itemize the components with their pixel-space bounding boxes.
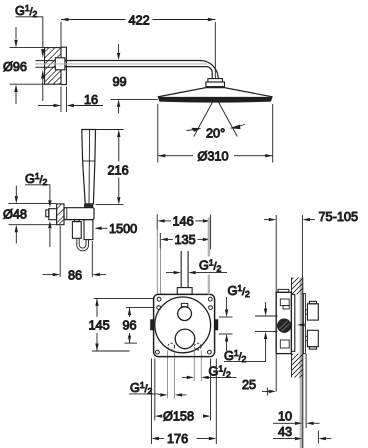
svg-text:135: 135 <box>175 233 196 247</box>
label G1/2 bottom-right port <box>182 351 237 382</box>
hose connector at holder outlet <box>72 220 81 239</box>
side view: valve body (dark) <box>277 319 291 333</box>
side view: wall flange plate <box>291 295 294 352</box>
svg-text:Ø158: Ø158 <box>163 410 194 424</box>
lower handle side view <box>305 330 318 349</box>
label G1/2 right side port <box>219 283 250 351</box>
dimension 99 <box>111 44 158 114</box>
svg-text:216: 216 <box>108 164 129 178</box>
label G1/2 hand shower wall union <box>25 171 52 247</box>
svg-text:16: 16 <box>84 93 98 107</box>
side view: box top step <box>278 289 289 292</box>
dimension 145 <box>89 298 155 351</box>
dimension 176 <box>151 359 216 447</box>
svg-text:43: 43 <box>278 425 292 439</box>
dimension 43 <box>273 425 332 444</box>
wall thickness (gray band) <box>300 278 303 448</box>
angle 20 degrees spray <box>187 99 246 141</box>
thermostat cartridge circle <box>178 307 192 321</box>
shut-off valve circle <box>175 329 195 349</box>
dimension Ø96 <box>3 27 45 104</box>
svg-text:145: 145 <box>89 319 110 333</box>
dimension 216 <box>96 130 129 205</box>
wall union escutcheon (hatched) <box>57 204 64 225</box>
extension lines 146 135 left <box>157 230 160 295</box>
hose loop <box>77 238 89 251</box>
shower arm union nut <box>55 58 65 70</box>
riser pipe to shower arm <box>181 251 188 288</box>
svg-text:1500: 1500 <box>109 222 137 236</box>
riser fitting <box>177 288 192 295</box>
shower head connector nut <box>206 79 225 87</box>
trim plate side view <box>303 294 305 354</box>
shower arm pipe with bend <box>36 61 56 68</box>
hand shower handle <box>82 130 96 204</box>
shower holder body <box>64 208 94 220</box>
centerline through right screw holes (gray) <box>208 218 210 295</box>
label G1/2 riser thread <box>166 258 227 275</box>
dimension Ø48 <box>3 186 57 244</box>
dimension 16 <box>38 87 103 113</box>
hand shower inlet nut <box>84 204 93 208</box>
svg-text:176: 176 <box>167 432 188 446</box>
dimension 86 <box>43 226 107 283</box>
side view: rough-in box body <box>276 292 291 353</box>
dimension 25 <box>242 378 276 396</box>
wall hatching below box <box>287 340 307 390</box>
small arrow at wall face <box>297 323 304 326</box>
cartridge notch <box>181 303 187 306</box>
dimension 96 <box>123 308 155 344</box>
wall flange (hatched escutcheon) of shower arm <box>45 47 67 84</box>
wire: wall plane extension above flange <box>60 22 62 48</box>
label G1/2 shower arm connection <box>15 3 45 101</box>
label G1/2 side view port <box>224 302 278 364</box>
dimension 135 <box>160 233 210 249</box>
side view: box front face line <box>275 215 277 391</box>
svg-text:Ø96: Ø96 <box>3 60 27 74</box>
svg-text:Ø48: Ø48 <box>3 208 27 222</box>
right side port <box>215 319 219 330</box>
upper handle side view <box>305 301 318 320</box>
hidden bottom ports (dashed) <box>168 343 201 350</box>
label 1500 hose length <box>94 222 137 236</box>
shower arm pipe axis centerline (gray) <box>35 63 207 65</box>
wall union stem <box>46 209 57 220</box>
dimension 10 <box>273 354 320 428</box>
svg-text:Ø310: Ø310 <box>198 150 229 164</box>
shower head Rainshower 310 <box>158 88 273 103</box>
dimension 422 <box>61 14 215 79</box>
wall face line <box>302 278 304 448</box>
svg-text:96: 96 <box>123 319 137 333</box>
mixer rough-in box front view <box>154 294 215 356</box>
svg-text:99: 99 <box>113 75 127 89</box>
left side port <box>150 319 153 330</box>
dimension 75-105 <box>264 210 358 278</box>
side view: inner details <box>280 299 289 348</box>
mounting screw holes <box>156 297 213 354</box>
hose connector at hand shower <box>84 220 93 240</box>
svg-text:25: 25 <box>242 378 256 392</box>
wall hatching above box <box>287 264 307 309</box>
dimension 146 <box>157 215 210 250</box>
svg-text:20°: 20° <box>206 127 225 141</box>
svg-text:146: 146 <box>173 215 194 229</box>
svg-text:10: 10 <box>278 410 292 424</box>
svg-text:75-105: 75-105 <box>319 210 359 224</box>
dimension Ø310 <box>158 104 273 164</box>
mixer opening circle Ø158 <box>155 297 211 353</box>
svg-text:86: 86 <box>68 269 82 283</box>
dimension Ø158 <box>155 359 211 424</box>
svg-text:422: 422 <box>129 14 150 28</box>
label G1/2 bottom-left port <box>129 351 187 399</box>
